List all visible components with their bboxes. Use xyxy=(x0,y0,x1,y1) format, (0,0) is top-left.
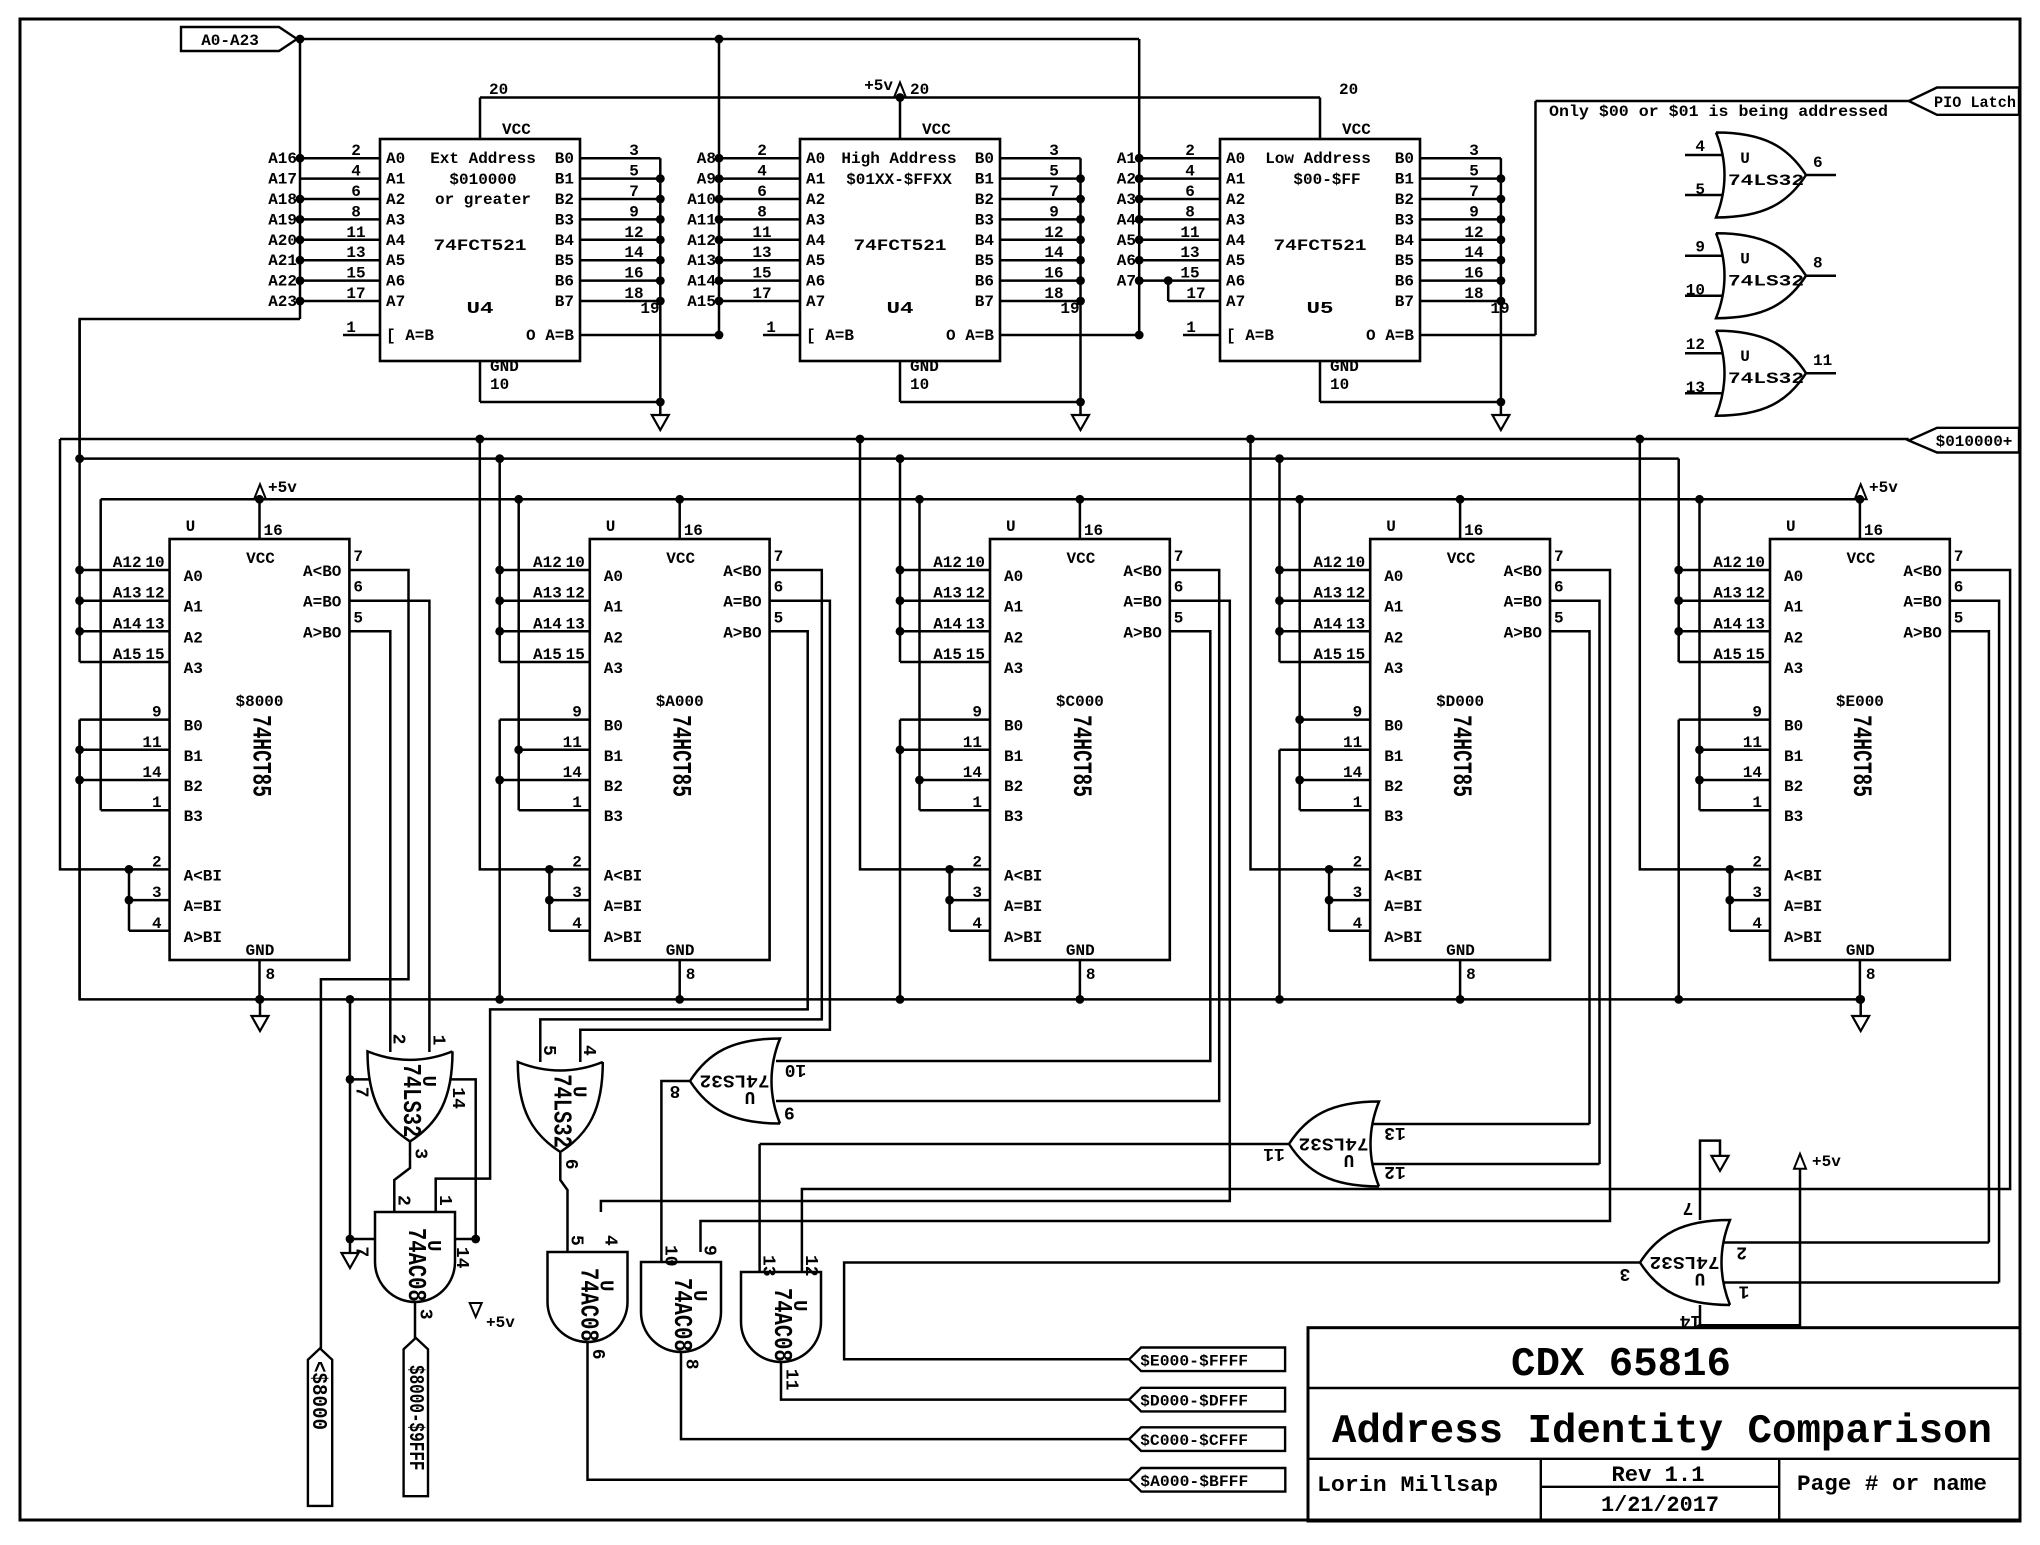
svg-text:A3: A3 xyxy=(1226,211,1245,229)
svg-text:A2: A2 xyxy=(1004,629,1023,647)
or-gate U 74LS32 #3 (pins 12,13->11) xyxy=(1716,331,1806,416)
svg-text:or greater: or greater xyxy=(435,191,531,209)
svg-text:12: 12 xyxy=(800,1255,820,1277)
svg-text:A2: A2 xyxy=(386,191,405,209)
svg-text:15: 15 xyxy=(566,646,585,664)
svg-text:B3: B3 xyxy=(1395,211,1414,229)
svg-text:B2: B2 xyxy=(184,778,203,796)
wire U6 A>BO drop xyxy=(349,631,390,1052)
svg-text:$E000-$FFFF: $E000-$FFFF xyxy=(1140,1352,1248,1370)
wire U10 GND stub xyxy=(1859,960,1862,999)
svg-text:7: 7 xyxy=(774,548,784,566)
svg-text:A<BO: A<BO xyxy=(1504,563,1543,581)
svg-text:A2: A2 xyxy=(184,629,203,647)
svg-text:5: 5 xyxy=(1695,181,1705,199)
svg-text:U: U xyxy=(1695,1268,1706,1288)
and-gate B 74AC08 (1,2->3) xyxy=(375,1212,455,1302)
wire U6 B-high to +5v xyxy=(99,499,102,810)
svg-text:A<BO: A<BO xyxy=(1903,563,1942,581)
wires U4b inputs A8-A15 xyxy=(719,157,800,160)
svg-text:+5v: +5v xyxy=(486,1314,515,1332)
wire U8 VCC stub xyxy=(1079,499,1082,539)
svg-text:A=BO: A=BO xyxy=(1504,594,1543,612)
svg-text:11: 11 xyxy=(1343,734,1362,752)
wire U8 A<BO drop xyxy=(776,570,1219,1101)
svg-text:A14: A14 xyxy=(113,615,142,633)
wire U4b B bus xyxy=(1079,158,1082,402)
svg-text:12: 12 xyxy=(1044,224,1063,242)
wire U7 B-low to GND xyxy=(498,720,501,1000)
svg-text:A14: A14 xyxy=(533,615,562,633)
or-gate A 74LS32 (1,2->3) xyxy=(368,1051,453,1141)
wire U7 A>BO drop xyxy=(436,631,808,1211)
svg-text:+5v: +5v xyxy=(1812,1153,1841,1171)
svg-text:B4: B4 xyxy=(555,232,575,250)
svg-text:VCC: VCC xyxy=(666,550,695,568)
svg-text:5: 5 xyxy=(1954,609,1964,627)
svg-text:6: 6 xyxy=(587,1349,607,1360)
svg-text:19: 19 xyxy=(640,300,659,318)
svg-text:11: 11 xyxy=(781,1369,801,1391)
svg-text:4: 4 xyxy=(1695,138,1705,156)
svg-text:A0: A0 xyxy=(1226,150,1245,168)
wire U6 A<BO drop xyxy=(321,570,409,1348)
junction U4b pin19 to A1 bus xyxy=(1135,331,1144,340)
svg-text:B0: B0 xyxy=(555,150,574,168)
svg-text:12: 12 xyxy=(624,224,643,242)
svg-text:1: 1 xyxy=(766,319,776,337)
svg-text:B5: B5 xyxy=(1395,252,1414,270)
svg-text:74HCT85: 74HCT85 xyxy=(665,715,696,797)
wire A8-A15 bus drop xyxy=(718,39,721,335)
svg-text:Ext Address: Ext Address xyxy=(430,150,536,168)
svg-text:A2: A2 xyxy=(1784,629,1803,647)
svg-text:2: 2 xyxy=(392,1195,412,1206)
svg-text:A6: A6 xyxy=(1226,273,1245,291)
wire U8 BI chain xyxy=(948,869,951,930)
svg-text:U: U xyxy=(688,1290,710,1301)
svg-text:12: 12 xyxy=(1686,336,1705,354)
svg-text:4: 4 xyxy=(1353,915,1363,933)
svg-text:4: 4 xyxy=(351,163,361,181)
svg-text:B0: B0 xyxy=(975,150,994,168)
svg-text:B3: B3 xyxy=(1004,808,1023,826)
svg-text:B6: B6 xyxy=(555,273,574,291)
svg-text:A>BO: A>BO xyxy=(1903,624,1942,642)
svg-text:16: 16 xyxy=(624,265,643,283)
svg-text:A0: A0 xyxy=(806,150,825,168)
svg-text:15: 15 xyxy=(1180,265,1199,283)
svg-text:6: 6 xyxy=(1813,154,1823,172)
net label $C000-$CFFF xyxy=(1129,1427,1285,1451)
svg-text:VCC: VCC xyxy=(1846,550,1875,568)
wire U4a pin1 stub xyxy=(343,334,380,337)
svg-text:8: 8 xyxy=(266,966,276,984)
svg-text:7: 7 xyxy=(351,1087,371,1098)
wire U4a pin19 xyxy=(580,334,719,337)
svg-text:13: 13 xyxy=(1686,379,1705,397)
svg-text:B1: B1 xyxy=(1784,748,1803,766)
svg-text:2: 2 xyxy=(972,853,982,871)
svg-text:A10: A10 xyxy=(687,191,716,209)
wire U4b VCC stub xyxy=(899,98,902,140)
svg-text:A<BI: A<BI xyxy=(1784,867,1822,885)
wires U8 A12-A15 taps xyxy=(899,459,902,662)
svg-text:2: 2 xyxy=(572,853,582,871)
wire U10 B-high to +5v xyxy=(1698,499,1701,810)
svg-text:3: 3 xyxy=(972,884,982,902)
svg-text:$A000-$BFFF: $A000-$BFFF xyxy=(1140,1473,1248,1491)
svg-text:A<BO: A<BO xyxy=(723,563,762,581)
svg-text:12: 12 xyxy=(1746,585,1765,603)
svg-text:B3: B3 xyxy=(1784,808,1803,826)
svg-text:VCC: VCC xyxy=(502,121,531,139)
wire U8 B-low to GND xyxy=(899,720,902,1000)
svg-text:11: 11 xyxy=(1180,224,1199,242)
net label $E000-$FFFF xyxy=(1129,1348,1285,1372)
svg-text:11: 11 xyxy=(1813,352,1832,370)
svg-text:$010000+: $010000+ xyxy=(1936,433,2013,451)
svg-text:A3: A3 xyxy=(184,660,203,678)
svg-text:Only $00 or $01 is being addre: Only $00 or $01 is being addressed xyxy=(1549,103,1888,121)
svg-text:A<BO: A<BO xyxy=(1123,563,1162,581)
svg-text:5: 5 xyxy=(538,1045,558,1056)
net label $D000-$DFFF xyxy=(1129,1388,1285,1412)
net label $010000+ xyxy=(1909,428,2019,453)
svg-text:11: 11 xyxy=(963,734,982,752)
wire U10 B-low to GND xyxy=(1677,720,1680,1000)
wire U4a VCC stub xyxy=(479,98,482,140)
wire U4a GND stub xyxy=(479,361,482,402)
svg-text:A>BI: A>BI xyxy=(1784,929,1822,947)
wire U4b pin1 stub xyxy=(763,334,800,337)
svg-text:A1: A1 xyxy=(1004,599,1023,617)
svg-text:A0: A0 xyxy=(1784,568,1803,586)
junction +5v U4b xyxy=(896,93,905,102)
svg-text:O A=B: O A=B xyxy=(1366,327,1414,345)
svg-text:9: 9 xyxy=(629,203,639,221)
svg-text:GND: GND xyxy=(910,358,939,376)
svg-text:11: 11 xyxy=(1743,734,1762,752)
svg-text:A12: A12 xyxy=(113,554,142,572)
svg-text:A15: A15 xyxy=(687,293,716,311)
svg-text:4: 4 xyxy=(972,915,982,933)
title block frame xyxy=(1308,1328,2020,1521)
svg-text:A0-A23: A0-A23 xyxy=(201,32,259,50)
wire U5 pin19 to PIO Latch xyxy=(1420,334,1536,337)
svg-text:14: 14 xyxy=(1044,244,1064,262)
svg-text:B4: B4 xyxy=(975,232,995,250)
wire gateJ pin7 xyxy=(1700,1141,1720,1220)
svg-text:9: 9 xyxy=(1695,239,1705,257)
svg-text:9: 9 xyxy=(1469,203,1479,221)
svg-text:5: 5 xyxy=(566,1235,586,1246)
svg-text:A7: A7 xyxy=(1117,273,1136,291)
svg-text:7: 7 xyxy=(629,183,639,201)
svg-text:1: 1 xyxy=(152,794,162,812)
svg-text:11: 11 xyxy=(752,224,771,242)
svg-text:A13: A13 xyxy=(533,585,562,603)
wire GND bus xyxy=(80,720,1861,1000)
svg-text:A>BO: A>BO xyxy=(1504,624,1543,642)
wire $010000+ to U10 A<BI xyxy=(1640,439,1770,869)
wire U9 B-high to +5v xyxy=(1298,499,1301,810)
svg-text:19: 19 xyxy=(1060,300,1079,318)
svg-text:15: 15 xyxy=(1746,646,1765,664)
wire gateA pin14 xyxy=(451,1079,476,1240)
svg-text:14: 14 xyxy=(142,764,162,782)
wire A23 bus to left xyxy=(80,319,300,459)
svg-text:8: 8 xyxy=(757,203,767,221)
svg-text:1: 1 xyxy=(346,319,356,337)
svg-text:A13: A13 xyxy=(933,585,962,603)
svg-text:A<BI: A<BI xyxy=(1004,867,1042,885)
svg-text:16: 16 xyxy=(1864,522,1883,540)
wire U10 VCC stub xyxy=(1859,499,1862,539)
svg-text:8: 8 xyxy=(686,966,696,984)
svg-text:CDX 65816: CDX 65816 xyxy=(1511,1342,1731,1388)
svg-text:U4: U4 xyxy=(467,300,494,319)
svg-text:18: 18 xyxy=(1464,285,1483,303)
svg-text:A4: A4 xyxy=(386,232,406,250)
wire gateF pin13 riser xyxy=(758,1144,761,1272)
svg-text:14: 14 xyxy=(624,244,644,262)
svg-text:A>BI: A>BI xyxy=(184,929,222,947)
svg-text:A2: A2 xyxy=(1117,171,1136,189)
svg-text:A<BO: A<BO xyxy=(303,563,342,581)
svg-text:7: 7 xyxy=(353,548,363,566)
wire U8 A=BO drop xyxy=(601,601,1230,1212)
svg-text:7: 7 xyxy=(1554,548,1564,566)
svg-text:16: 16 xyxy=(1044,265,1063,283)
svg-text:B0: B0 xyxy=(1004,718,1023,736)
svg-text:A3: A3 xyxy=(1004,660,1023,678)
svg-text:$A000: $A000 xyxy=(656,693,704,711)
svg-text:12: 12 xyxy=(566,585,585,603)
svg-text:A3: A3 xyxy=(806,211,825,229)
svg-text:B1: B1 xyxy=(1395,171,1414,189)
wire U10 A=BO drop xyxy=(1950,601,1999,1283)
svg-text:74LS32: 74LS32 xyxy=(1728,172,1804,190)
svg-text:U: U xyxy=(1786,518,1796,536)
svg-text:$8000-$9FFF: $8000-$9FFF xyxy=(403,1365,428,1471)
svg-text:1: 1 xyxy=(1353,794,1363,812)
svg-text:B2: B2 xyxy=(975,191,994,209)
svg-text:1: 1 xyxy=(1752,794,1762,812)
svg-text:VCC: VCC xyxy=(922,121,951,139)
svg-text:20: 20 xyxy=(910,81,929,99)
svg-text:13: 13 xyxy=(752,244,771,262)
svg-text:B6: B6 xyxy=(1395,273,1414,291)
svg-text:B0: B0 xyxy=(604,718,623,736)
svg-text:A4: A4 xyxy=(806,232,826,250)
svg-text:A15: A15 xyxy=(1713,646,1742,664)
svg-text:1: 1 xyxy=(572,794,582,812)
svg-text:9: 9 xyxy=(152,704,162,722)
svg-text:U: U xyxy=(567,1086,589,1097)
svg-text:4: 4 xyxy=(152,915,162,933)
svg-text:B0: B0 xyxy=(1384,718,1403,736)
svg-text:14: 14 xyxy=(563,764,583,782)
svg-text:16: 16 xyxy=(1084,522,1103,540)
svg-text:14: 14 xyxy=(1464,244,1484,262)
comparator U9 74HCT85 $D000 xyxy=(1370,539,1550,960)
wire gateD out xyxy=(588,1342,1130,1480)
svg-text:74LS32: 74LS32 xyxy=(1650,1251,1720,1271)
net label PIO Latch xyxy=(1909,88,2019,115)
svg-text:GND: GND xyxy=(246,942,275,960)
svg-text:4: 4 xyxy=(757,163,767,181)
svg-text:A0: A0 xyxy=(604,568,623,586)
svg-text:+5v: +5v xyxy=(864,77,893,95)
svg-text:A3: A3 xyxy=(1384,660,1403,678)
svg-text:A15: A15 xyxy=(1313,646,1342,664)
svg-text:A3: A3 xyxy=(1117,191,1136,209)
wire $010000+ to U7 A<BI xyxy=(480,439,590,869)
svg-text:B1: B1 xyxy=(184,748,203,766)
svg-text:A12: A12 xyxy=(1313,554,1342,572)
wire U7 GND stub xyxy=(678,960,681,999)
svg-text:2: 2 xyxy=(351,142,361,160)
wire A1-A7 bus drop xyxy=(1138,39,1141,335)
svg-text:A20: A20 xyxy=(268,232,297,250)
svg-text:A=BI: A=BI xyxy=(1004,898,1042,916)
svg-text:11: 11 xyxy=(142,734,161,752)
svg-text:A1: A1 xyxy=(386,171,405,189)
svg-text:10: 10 xyxy=(1346,554,1365,572)
svg-text:14: 14 xyxy=(1343,764,1363,782)
svg-text:1: 1 xyxy=(1186,319,1196,337)
svg-text:Rev 1.1: Rev 1.1 xyxy=(1612,1463,1705,1488)
svg-text:B3: B3 xyxy=(184,808,203,826)
svg-text:A3: A3 xyxy=(1784,660,1803,678)
ground U4b xyxy=(1079,402,1082,415)
wire U6 VCC stub xyxy=(258,499,261,539)
svg-text:Address Identity Comparison: Address Identity Comparison xyxy=(1332,1409,1992,1455)
svg-text:7: 7 xyxy=(1049,183,1059,201)
wires U10 A12-A15 taps xyxy=(1677,459,1680,662)
svg-text:A15: A15 xyxy=(533,646,562,664)
svg-text:U: U xyxy=(1006,518,1016,536)
svg-text:VCC: VCC xyxy=(1447,550,1476,568)
svg-text:A2: A2 xyxy=(1384,629,1403,647)
wire A16-A23 bus drop xyxy=(299,39,302,319)
svg-text:O A=B: O A=B xyxy=(526,327,574,345)
svg-text:13: 13 xyxy=(1746,615,1765,633)
svg-text:1: 1 xyxy=(434,1195,454,1206)
svg-text:8: 8 xyxy=(670,1080,681,1100)
wire gateJ pin14 xyxy=(1700,1169,1800,1326)
svg-text:13: 13 xyxy=(566,615,585,633)
ground gates xyxy=(342,1253,359,1268)
wire U9 B-low to GND xyxy=(1278,750,1281,1000)
wire U9 GND stub xyxy=(1459,960,1462,999)
svg-text:9: 9 xyxy=(784,1102,795,1122)
svg-text:74HCT85: 74HCT85 xyxy=(1065,715,1096,797)
svg-text:GND: GND xyxy=(1330,358,1359,376)
svg-text:5: 5 xyxy=(1469,163,1479,181)
svg-text:U: U xyxy=(422,1240,444,1251)
svg-text:A=BO: A=BO xyxy=(1903,594,1942,612)
wire gateG out xyxy=(661,1081,690,1263)
svg-text:7: 7 xyxy=(351,1246,371,1257)
wire U7 VCC stub xyxy=(678,499,681,539)
svg-text:1: 1 xyxy=(972,794,982,812)
svg-text:8: 8 xyxy=(1086,966,1096,984)
svg-text:A1: A1 xyxy=(1117,150,1136,168)
wire U5 VCC stub xyxy=(1319,98,1322,140)
svg-text:A=BI: A=BI xyxy=(1784,898,1822,916)
svg-text:9: 9 xyxy=(1752,704,1762,722)
svg-text:13: 13 xyxy=(1180,244,1199,262)
svg-text:74LS32: 74LS32 xyxy=(1728,273,1804,291)
wire U8 GND stub xyxy=(1079,960,1082,999)
svg-text:A13: A13 xyxy=(113,585,142,603)
wire $010000+ to U9 A<BI xyxy=(1251,439,1371,869)
svg-text:A5: A5 xyxy=(1226,252,1245,270)
svg-text:A<BI: A<BI xyxy=(184,867,222,885)
and-gate E 74AC08 (9,10->8) xyxy=(641,1262,721,1352)
svg-text:A12: A12 xyxy=(687,232,716,250)
or-gate U 74LS32 #2 (pins 9,10->8) xyxy=(1716,233,1806,318)
svg-text:$010000: $010000 xyxy=(449,171,516,189)
svg-text:6: 6 xyxy=(351,183,361,201)
svg-text:9: 9 xyxy=(972,704,982,722)
svg-text:A0: A0 xyxy=(1384,568,1403,586)
or-gate C 74LS32 (4,5->6) xyxy=(518,1062,603,1152)
wire U8 B-high to +5v xyxy=(918,499,921,810)
svg-text:16: 16 xyxy=(1464,522,1483,540)
svg-text:8: 8 xyxy=(351,203,361,221)
svg-text:12: 12 xyxy=(966,585,985,603)
svg-text:6: 6 xyxy=(560,1159,580,1170)
svg-text:16: 16 xyxy=(684,522,703,540)
svg-text:2: 2 xyxy=(388,1034,408,1045)
svg-text:A1: A1 xyxy=(1784,599,1803,617)
svg-text:9: 9 xyxy=(572,704,582,722)
wire U4b GND stub xyxy=(899,361,902,402)
svg-text:B6: B6 xyxy=(975,273,994,291)
wire U4b pin19 xyxy=(1000,334,1139,337)
ground chip1 xyxy=(259,999,262,1016)
wires U4a inputs A16-A23 xyxy=(300,157,380,160)
svg-text:9: 9 xyxy=(699,1245,719,1256)
svg-text:A=BO: A=BO xyxy=(303,594,342,612)
wire U5 GND stub xyxy=(1319,361,1322,402)
svg-text:A9: A9 xyxy=(697,171,716,189)
svg-text:B0: B0 xyxy=(1395,150,1414,168)
svg-text:A=BO: A=BO xyxy=(723,594,762,612)
svg-text:VCC: VCC xyxy=(1342,121,1371,139)
svg-text:B7: B7 xyxy=(975,293,994,311)
svg-text:16: 16 xyxy=(1464,265,1483,283)
svg-text:A2: A2 xyxy=(1226,191,1245,209)
svg-text:VCC: VCC xyxy=(1066,550,1095,568)
power +5v gates xyxy=(470,1303,482,1317)
svg-text:B3: B3 xyxy=(1384,808,1403,826)
svg-text:3: 3 xyxy=(1469,142,1479,160)
svg-text:+5v: +5v xyxy=(268,479,297,497)
svg-text:U: U xyxy=(1344,1149,1355,1169)
svg-text:PIO Latch: PIO Latch xyxy=(1934,94,2016,112)
wire U9 BI chain xyxy=(1328,869,1331,930)
svg-text:3: 3 xyxy=(1049,142,1059,160)
svg-text:11: 11 xyxy=(563,734,582,752)
svg-text:+5v: +5v xyxy=(1869,479,1898,497)
svg-text:10: 10 xyxy=(490,376,509,394)
svg-text:Lorin Millsap: Lorin Millsap xyxy=(1317,1473,1498,1498)
svg-text:A6: A6 xyxy=(806,273,825,291)
